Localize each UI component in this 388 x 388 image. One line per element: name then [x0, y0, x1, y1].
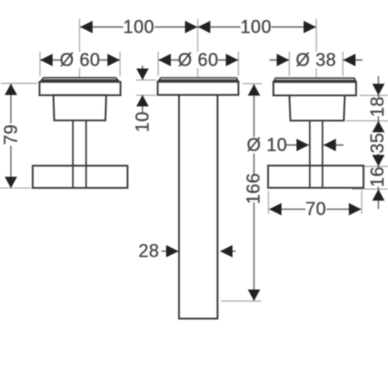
arrow 100 left end [80, 21, 92, 33]
label 166 rotated [244, 173, 264, 204]
svg-text:Ø 38: Ø 38 [296, 50, 337, 70]
label 16 rotated [367, 166, 387, 187]
dimension line dia38 tails [270, 59, 363, 61]
dimension line 100-100 top [80, 26, 316, 28]
right valve crossbar handle [268, 166, 363, 188]
arrow 70 right [349, 203, 361, 215]
extension lines right stack [346, 95, 388, 189]
extension ticks dia60 mid [158, 52, 238, 77]
extension lines dim 166 [221, 84, 262, 301]
centerline right valve [315, 19, 317, 78]
centerline left valve [79, 19, 81, 78]
dimension line dia60 mid [158, 59, 238, 61]
label 10 rotated [133, 111, 153, 132]
arrow 28 left [220, 245, 232, 257]
label 18 rotated [367, 96, 387, 117]
svg-text:100: 100 [240, 17, 271, 37]
label 70 [305, 199, 326, 219]
arrow dia60 left outward-left [40, 54, 52, 66]
label dia 60 mid [178, 50, 219, 70]
arrow 166 down [248, 290, 260, 301]
arrow 16 down [372, 155, 384, 166]
label 28 [138, 241, 160, 261]
svg-text:79: 79 [1, 124, 21, 145]
svg-text:100: 100 [123, 17, 154, 37]
dimension line 166 [253, 84, 255, 300]
right valve stem [310, 121, 323, 188]
svg-text:28: 28 [138, 241, 159, 261]
arrow 28 right [166, 245, 178, 257]
svg-text:166: 166 [244, 173, 264, 204]
arrow 79 down [5, 177, 17, 188]
right valve escutcheon top band [273, 78, 356, 82]
dimension line right stack [377, 76, 379, 209]
right valve escutcheon body [273, 82, 356, 95]
arrow dia60 mid outward-right [226, 54, 238, 66]
arrow dia10 right [297, 139, 309, 151]
dimension line 79 [10, 84, 12, 188]
label dia 10 [247, 135, 288, 155]
left valve escutcheon top band [40, 78, 120, 82]
left valve crossbar handle [33, 166, 128, 188]
svg-text:16: 16 [367, 166, 387, 187]
svg-text:10: 10 [133, 111, 153, 132]
svg-text:Ø 60: Ø 60 [178, 50, 219, 70]
arrow 100 middle right-pointing [185, 21, 197, 33]
left valve escutcheon body [40, 82, 121, 95]
left valve stem [73, 120, 86, 187]
arrow dia60 left outward-right [107, 54, 119, 66]
dimension line 70 [269, 208, 361, 210]
extension lines dim 10 [136, 80, 156, 95]
label dia 38 [296, 50, 337, 70]
arrow dia38 inward-left [343, 54, 355, 66]
centerline spout [197, 19, 199, 78]
svg-text:Ø 10: Ø 10 [247, 135, 288, 155]
extension ticks dia60 left [40, 52, 120, 77]
label 100 first [123, 17, 154, 37]
dimension line 10 [142, 66, 144, 114]
label dia 60 left [60, 50, 101, 70]
dimension line dia60 left [40, 59, 120, 61]
arrow 166 up [248, 84, 260, 95]
left valve housing [53, 95, 106, 120]
extension ticks dia38 [289, 52, 343, 77]
arrow 79 up [5, 84, 17, 95]
arrow 18 up [372, 121, 384, 132]
arrow dia60 mid outward-left [158, 54, 170, 66]
label 35 rotated [367, 133, 387, 154]
extension lines dim 79 [0, 83, 38, 188]
arrow 70 left [269, 203, 281, 215]
arrow 100 middle left-pointing [198, 21, 210, 33]
arrow dia10 left [324, 139, 336, 151]
svg-text:70: 70 [305, 199, 326, 219]
arrow 10 down [136, 69, 148, 80]
svg-text:Ø 60: Ø 60 [60, 50, 101, 70]
arrow 10 up [136, 95, 148, 106]
arrow 18 down [372, 84, 384, 95]
spout tube [179, 95, 218, 319]
arrow dia38 inward-right [277, 54, 289, 66]
arrow 100 right end [304, 21, 316, 33]
label 79 rotated [1, 123, 21, 146]
spout escutcheon top band [158, 78, 239, 82]
extension ticks dim 70 [268, 191, 361, 214]
label 100 second [240, 17, 271, 37]
dimension line dia10 tails [286, 144, 344, 146]
right valve housing [289, 95, 344, 120]
spout escutcheon body [158, 82, 239, 95]
svg-text:35: 35 [367, 133, 387, 154]
arrow 16 up [372, 189, 384, 200]
svg-text:18: 18 [367, 96, 387, 117]
dimension line 28 tails [162, 250, 236, 252]
